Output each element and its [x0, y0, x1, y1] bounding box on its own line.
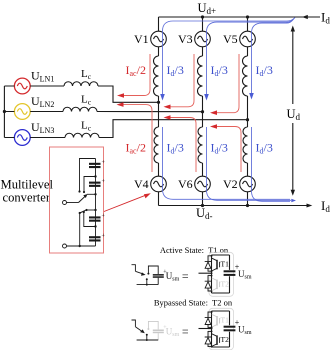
- wire cell2 top contact: [87, 209, 96, 211]
- svg-text:V6: V6: [178, 177, 193, 191]
- valve V3: [195, 31, 211, 47]
- wire cell2 common down: [79, 213, 81, 246]
- svg-text:Id/3: Id/3: [167, 63, 184, 78]
- inset1 wire capacitor bottom to rail: [137, 278, 159, 285]
- inset2 equivalent switch input wire: [132, 320, 136, 327]
- current path Id/3 leg V3 blue: [204, 18, 294, 100]
- svg-text:V3: V3: [178, 32, 193, 46]
- inset2 capacitor submodule: [224, 318, 240, 331]
- ac source ULN1: [14, 78, 30, 94]
- inductor leg V6 lower: [198, 127, 203, 163]
- node bottom bus / leg V2: [246, 204, 249, 207]
- svg-text:Id/3: Id/3: [211, 141, 228, 156]
- svg-text:Multilevel: Multilevel: [1, 178, 54, 192]
- inductor leg V4 lower: [154, 127, 159, 163]
- current path Iac/2 phase 2 from V6 red: [164, 115, 197, 172]
- inset2 bottom rail wire: [137, 339, 159, 341]
- terminal 2: [63, 244, 67, 248]
- equals sign inset1: [183, 275, 189, 278]
- wire bottom link: [67, 245, 96, 247]
- wire leg V1 upper: [158, 17, 160, 102]
- inset1 submodule enclosure grey: [209, 252, 234, 296]
- wire phase 3: [30, 120, 247, 138]
- node cell1 bypass on rail: [94, 193, 96, 195]
- capacitor C2: [89, 179, 106, 187]
- inset2 submodule input wire: [199, 328, 212, 330]
- svg-text:Iac/2: Iac/2: [126, 63, 146, 78]
- inset2 diode D1: [205, 312, 212, 327]
- inductor Lc phase 1: [64, 82, 98, 86]
- node phase 2 / leg V3: [201, 110, 204, 113]
- inductor Lc phase 2: [63, 107, 97, 111]
- current path Id/3 leg V1 blue: [160, 18, 295, 101]
- svg-text:Id/3: Id/3: [256, 141, 273, 156]
- inset1 submodule input wire: [199, 272, 212, 274]
- inset1 contact top: [147, 273, 149, 275]
- inset2 submodule enclosure grey: [209, 308, 234, 350]
- wire leg V3 upper: [202, 17, 204, 112]
- valve V6: [195, 176, 211, 192]
- current path Iac/2 phase 2 from V3 red: [164, 54, 195, 109]
- current path Iac/2 phase 3 from V5 red: [210, 54, 239, 115]
- svg-text:Id/3: Id/3: [256, 63, 273, 78]
- node cell2 contact dots: [85, 209, 87, 211]
- wire cell2 mid link: [84, 212, 96, 227]
- equals sign inset2: [183, 330, 189, 333]
- inset2 IGBT T2 on: [212, 334, 220, 347]
- wire submodule chain rail: [95, 159, 97, 247]
- inset2 diode D2: [205, 331, 212, 346]
- inset1 equivalent switch input wire: [132, 265, 136, 272]
- svg-text:T1: T1: [221, 260, 230, 269]
- svg-text:V2: V2: [223, 177, 238, 191]
- current path Id/3 leg V2 blue: [252, 127, 297, 202]
- inductor leg V1 upper: [154, 56, 159, 96]
- inset1 IGBT T1 on: [212, 258, 220, 271]
- inset1 equivalent switch lever: [135, 271, 145, 275]
- wire top DC bus Ud+: [159, 15, 321, 19]
- svg-text:Id/3: Id/3: [167, 141, 184, 156]
- switch selector S2: [79, 210, 86, 214]
- inset2 node mid: [211, 328, 213, 330]
- current path Id/3 leg V6 blue: [207, 127, 292, 200]
- wire cell1 mid link: [84, 177, 96, 193]
- inductor leg V5 upper: [243, 56, 248, 96]
- svg-text:T2: T2: [221, 335, 230, 344]
- measurement arrow Ud: [291, 26, 295, 196]
- node chain mid2: [94, 225, 96, 227]
- wire bottom DC bus Ud-: [159, 204, 313, 208]
- inset1 submodule frame wires: [212, 255, 230, 293]
- inset1 diode D2: [205, 276, 212, 291]
- multilevel converter enclosure box red: [50, 147, 104, 253]
- node cell2 contact b: [83, 211, 85, 213]
- inset2 equivalent switch lever: [135, 327, 144, 334]
- wire phase 1: [30, 86, 158, 102]
- svg-text:V1: V1: [134, 32, 149, 46]
- inductor Lc phase 3: [65, 133, 99, 137]
- svg-text:T1: T1: [221, 315, 230, 324]
- ac source ULN3: [14, 130, 30, 146]
- current path Id/3 leg V5 blue: [249, 19, 293, 99]
- inductor leg V3 upper: [198, 56, 203, 96]
- wire neutral rail left: [4, 86, 14, 138]
- svg-text:Id/3: Id/3: [211, 63, 228, 78]
- inductor leg V2 lower: [243, 127, 248, 163]
- wire leg V6 lower: [202, 112, 204, 206]
- wire leg V5 upper: [247, 17, 249, 120]
- inset1 contact bottom stub: [146, 278, 148, 285]
- wire cell1 bypass contact: [87, 193, 96, 195]
- svg-text:T2: T2: [221, 280, 230, 289]
- wire leg V4 lower: [158, 102, 160, 205]
- current path Iac/2 phase 1 from V4 red: [117, 102, 153, 172]
- valve V5: [240, 31, 256, 47]
- node top bus / leg V5: [246, 15, 249, 18]
- inset2 wire to capacitor top grey: [147, 321, 158, 330]
- svg-text:Iac/2: Iac/2: [126, 141, 146, 156]
- switch selector S1: [67, 194, 88, 203]
- terminal 1: [63, 201, 67, 205]
- svg-text:converter: converter: [3, 191, 51, 205]
- node phase 3 / leg V5: [246, 118, 249, 121]
- inset1 IGBT T2 off grey: [212, 278, 229, 291]
- inset1 node mid: [211, 272, 213, 274]
- inset1 wire to capacitor top: [148, 266, 158, 274]
- node bottom link: [79, 245, 81, 247]
- node cell1 contact a: [78, 190, 80, 192]
- current path Id/3 leg V4 blue: [163, 127, 291, 199]
- node neutral rail: [3, 110, 6, 113]
- valve V4: [151, 176, 167, 192]
- inset2 contact bottom stub: [146, 334, 148, 341]
- node cell1 contact b: [83, 191, 85, 193]
- svg-text:Bypassed State: T2 on: Bypassed State: T2 on: [154, 298, 233, 308]
- capacitor C1: [89, 160, 106, 168]
- current path Iac/2 phase 1 from V1 red: [117, 54, 150, 98]
- inset1 capacitor Usm: [153, 269, 168, 277]
- node chain mid1: [94, 175, 96, 177]
- wire leg V2 lower: [247, 120, 249, 206]
- ac source ULN2: [14, 104, 30, 120]
- svg-text:V4: V4: [134, 177, 149, 191]
- capacitor C4: [89, 234, 106, 242]
- inset2 capacitor Usm grey: [153, 325, 180, 340]
- node bottom bus / leg V6: [201, 204, 204, 207]
- node top bus / leg V3: [201, 15, 204, 18]
- inset1 diode D1: [205, 256, 212, 271]
- inset2 IGBT T1 off grey: [212, 314, 229, 327]
- inset2 submodule frame wires: [212, 311, 230, 347]
- valve V2: [240, 176, 256, 192]
- valve V1: [151, 31, 167, 47]
- callout arrow from box to V4 red: [104, 193, 151, 211]
- wire phase 2: [30, 111, 202, 113]
- capacitor C3: [89, 214, 106, 222]
- svg-text:V5: V5: [223, 32, 238, 46]
- svg-text:Active State: T1 on: Active State: T1 on: [160, 245, 229, 255]
- inset1 capacitor submodule: [224, 263, 240, 276]
- current path Iac/2 phase 3 from V2 red: [210, 124, 241, 172]
- node phase 1 / leg V1: [157, 101, 160, 104]
- wire cell1 top link: [80, 159, 96, 192]
